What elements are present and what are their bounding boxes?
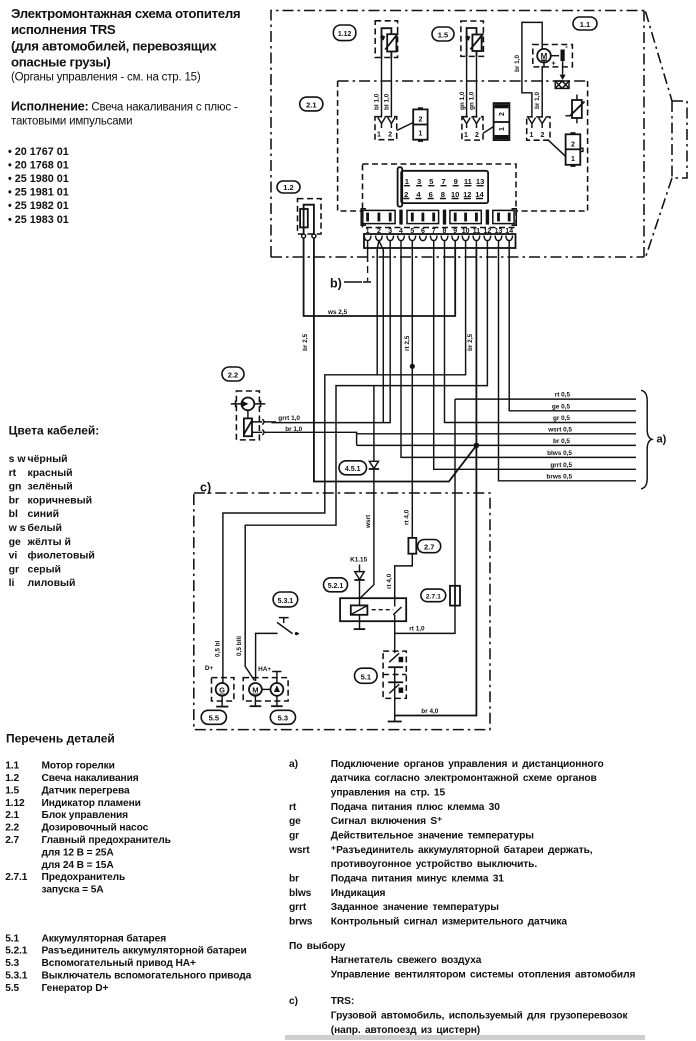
svg-text:1: 1 [405, 177, 410, 186]
svg-text:4.5.1: 4.5.1 [345, 466, 361, 473]
svg-text:Аккумуляторная батарея: Аккумуляторная батарея [42, 932, 167, 944]
svg-text:b): b) [330, 277, 342, 291]
svg-text:5.3.1: 5.3.1 [5, 971, 28, 982]
terminal K1.15 [350, 557, 367, 572]
svg-text:8: 8 [441, 190, 445, 199]
svg-text:5.5: 5.5 [5, 983, 19, 994]
relay coil ground [354, 615, 366, 629]
svg-text:• 25 1983 01: • 25 1983 01 [8, 214, 69, 226]
dosing pump 2.2 label [222, 367, 244, 381]
svg-text:• 20 1768 01: • 20 1768 01 [8, 159, 69, 171]
generator ground [216, 696, 228, 707]
svg-text:M: M [541, 52, 548, 61]
svg-text:1.12: 1.12 [338, 31, 352, 38]
a-bundle labels [546, 392, 572, 481]
svg-text:5.5: 5.5 [209, 714, 219, 723]
svg-text:br: br [9, 494, 20, 506]
bulkhead connector (box with X) on 2.1 edge [555, 81, 569, 88]
svg-text:Контрольный сигнал измерител: Контрольный сигнал измерительного датчик… [331, 917, 568, 928]
temperature sensing resistor in 2.1 [566, 95, 585, 124]
svg-text:2: 2 [418, 117, 422, 124]
svg-text:1.5: 1.5 [438, 31, 448, 40]
wire rt 4,0 fuse to relay contact [395, 554, 413, 599]
svg-text:10: 10 [451, 190, 459, 199]
svg-text:1: 1 [571, 156, 575, 163]
wire ws 2,5 glow plug to pin 9 [304, 238, 456, 316]
svg-text:Генератор D+: Генератор D+ [42, 983, 109, 994]
battery 5.1 label [355, 668, 378, 683]
svg-text:ws 2,5: ws 2,5 [327, 309, 348, 316]
socket fork symbols [364, 236, 512, 252]
wire pin 10 [223, 248, 466, 683]
pump plug contacts [252, 419, 271, 435]
svg-text:красный: красный [28, 467, 73, 479]
overheat sensor 1.5 label [432, 27, 454, 41]
svg-text:По выбору: По выбору [289, 940, 346, 952]
svg-text:brws: brws [289, 917, 313, 928]
aux drive grounds [250, 696, 283, 706]
wire rt 0,5 from fuse column [455, 399, 636, 586]
svg-text:Нагнетатель свежего воздуха: Нагнетатель свежего воздуха [331, 955, 482, 966]
svg-text:1.12: 1.12 [5, 798, 25, 809]
svg-text:1.5: 1.5 [5, 785, 19, 796]
svg-text:gn: gn [9, 481, 22, 493]
wire pin 3 (grrt to pump) [271, 248, 390, 423]
svg-text:rt 4,0: rt 4,0 [404, 509, 411, 525]
svg-text:Грузовой автомобиль, использ: Грузовой автомобиль, используемый для гр… [331, 1010, 629, 1022]
svg-text:1.2: 1.2 [283, 183, 293, 192]
svg-text:1: 1 [418, 131, 422, 138]
connector of 1.5 (2-pin dashed) [462, 117, 483, 140]
svg-text:wsrt: wsrt [288, 845, 310, 856]
flame indicator 1.12 label [333, 25, 355, 41]
svg-text:2: 2 [499, 112, 506, 116]
svg-text:Блок управления: Блок управления [42, 810, 129, 821]
heater unit nose (right protrusion) [646, 12, 688, 257]
svg-text:D+: D+ [205, 665, 214, 672]
svg-text:Главный предохранитель: Главный предохранитель [42, 835, 171, 846]
svg-text:3: 3 [417, 177, 421, 186]
svg-text:Предохранитель: Предохранитель [42, 872, 126, 883]
svg-text:ge: ge [289, 816, 301, 827]
svg-text:Исполнение: Свеча накаливания: Исполнение: Свеча накаливания с плюс - [11, 100, 238, 114]
wire pin 2a [382, 250, 384, 423]
svg-text:• 25 1980 01: • 25 1980 01 [8, 173, 69, 185]
svg-text:rt 0,5: rt 0,5 [555, 392, 571, 399]
svg-text:rt 1,0: rt 1,0 [409, 626, 425, 633]
svg-text:1: 1 [377, 132, 381, 139]
connector X1 outer dashed box [363, 164, 517, 228]
svg-text:+: + [551, 61, 555, 68]
label b) [330, 277, 371, 291]
wire br 0,5 to bundle a [476, 444, 636, 446]
svg-text:2.2: 2.2 [5, 823, 19, 834]
svg-text:w s: w s [8, 522, 26, 534]
svg-text:5.3.1: 5.3.1 [278, 598, 294, 605]
glow plug 1.2 label [277, 181, 300, 193]
wire pin 4 to blws 0,5 [401, 248, 636, 457]
connector of 1.12 (2-pin dashed) [375, 117, 397, 140]
motor supply wire loop [522, 22, 544, 117]
connector pin blades row [361, 209, 516, 225]
burner motor 1.1 (M in dashed box) [533, 42, 573, 68]
svg-text:blws: blws [289, 888, 312, 899]
svg-text:5.3: 5.3 [5, 958, 19, 969]
svg-text:br 1,0: br 1,0 [534, 92, 541, 109]
svg-text:Индикатор пламени: Индикатор пламени [42, 798, 141, 809]
connector of 1.1 (2-pin dashed) [527, 117, 550, 140]
svg-text:исполнения TRS: исполнения TRS [11, 22, 116, 37]
svg-text:14: 14 [475, 190, 484, 199]
svg-text:9: 9 [454, 177, 458, 186]
svg-text:• 25 1981 01: • 25 1981 01 [8, 187, 69, 199]
svg-text:лиловый: лиловый [28, 577, 76, 589]
svg-text:bl 1,0: bl 1,0 [384, 93, 391, 110]
svg-text:brws 0,5: brws 0,5 [546, 473, 572, 480]
glow plug 1.2 [298, 199, 322, 238]
svg-text:1.1: 1.1 [5, 761, 19, 772]
control unit 2.1 label [300, 97, 323, 111]
svg-text:gn 1,0: gn 1,0 [469, 91, 476, 110]
fuse 2.7 label [418, 540, 441, 553]
svg-text:5.3: 5.3 [278, 714, 288, 723]
svg-text:ge 0,5: ge 0,5 [552, 403, 571, 410]
svg-text:датчика согласно электромонт: датчика согласно электромонтажной схеме … [331, 773, 597, 784]
svg-text:br 0,5: br 0,5 [553, 438, 570, 445]
pin numbers row 2 (2 4 6 8 10 12 14) [403, 190, 484, 199]
svg-text:для 12 В = 25А: для 12 В = 25А [42, 847, 115, 858]
svg-text:br 4,0: br 4,0 [421, 708, 438, 715]
svg-text:gr: gr [289, 831, 299, 842]
svg-text:2: 2 [571, 142, 575, 149]
svg-text:серый: серый [28, 563, 62, 575]
svg-text:grrt 0,5: grrt 0,5 [550, 462, 572, 469]
svg-text:Подача питания минус клемма 31: Подача питания минус клемма 31 [331, 874, 505, 885]
svg-text:G: G [219, 686, 225, 695]
label 5.3 [270, 710, 295, 724]
svg-text:gr: gr [9, 563, 20, 575]
overheat sensor 1.5 [461, 21, 484, 56]
svg-text:7: 7 [441, 177, 445, 186]
svg-text:Заданное значение температур: Заданное значение температуры [331, 902, 499, 913]
svg-text:gn 1,0: gn 1,0 [459, 91, 466, 110]
svg-text:Подключение органов управления: Подключение органов управления и дистанц… [331, 759, 604, 770]
svg-text:5.2.1: 5.2.1 [328, 583, 344, 590]
diode 4.5.1 (in wsrt branch) [360, 386, 380, 599]
svg-text:2: 2 [404, 190, 408, 199]
wire pin 2 [376, 250, 378, 375]
svg-text:5.2.1: 5.2.1 [5, 946, 28, 957]
wire pin 13 to brws 0,5 [499, 248, 637, 481]
svg-text:2: 2 [541, 132, 545, 139]
svg-text:(для автомобилей, перевозящих: (для автомобилей, перевозящих [11, 38, 217, 53]
wire pin 7 to grrt 0,5 [434, 248, 636, 469]
dosing pump 2.2 [231, 391, 265, 440]
control unit 2.1 dashed box [338, 81, 588, 211]
svg-text:wsrt 0,5: wsrt 0,5 [547, 426, 572, 433]
svg-text:1: 1 [530, 132, 534, 139]
svg-text:grrt: grrt [289, 902, 307, 913]
plug housing callout of 1.12 [397, 107, 428, 142]
connector terminal numbers 1-14 [366, 228, 514, 235]
heater unit boundary (dash-dot outline) [271, 11, 644, 258]
svg-text:M: M [252, 686, 258, 695]
svg-text:2.7: 2.7 [5, 835, 19, 846]
battery disconnect relay 5.2.1 label [324, 578, 348, 592]
fuse 2.7.1 [450, 586, 460, 606]
svg-text:rt 4,0: rt 4,0 [386, 573, 393, 589]
svg-text:0,5 blli: 0,5 blli [236, 636, 243, 656]
plug housing callout of 1.1 [548, 132, 583, 167]
motor commutation arrow [560, 61, 566, 80]
svg-text:белый: белый [28, 522, 62, 534]
svg-text:2.1: 2.1 [306, 100, 316, 109]
svg-text:bl 1,0: bl 1,0 [374, 93, 381, 110]
svg-text:опасные грузы): опасные грузы) [11, 54, 110, 69]
wire pin 11 (br 2,5 main ground) [395, 248, 476, 716]
svg-text:bl: bl [9, 508, 18, 520]
svg-text:Электромонтажная схема отопите: Электромонтажная схема отопителя [11, 6, 240, 21]
fuse 2.7.1 label [421, 589, 446, 602]
svg-text:фиолетовый: фиолетовый [28, 550, 95, 562]
svg-text:Свеча накаливания: Свеча накаливания [42, 773, 139, 784]
wire wsrt 0,5 [357, 433, 636, 435]
brace for a) [641, 390, 652, 489]
wire 1.12 sensor to connector (bl 1,0) [382, 58, 392, 118]
svg-text:1.2: 1.2 [5, 773, 19, 784]
svg-text:Вспомогательный привод НА+: Вспомогательный привод НА+ [42, 958, 197, 969]
svg-text:2: 2 [388, 132, 392, 139]
svg-text:тактовыми импульсами: тактовыми импульсами [11, 116, 132, 128]
svg-text:запуска = 5А: запуска = 5А [42, 885, 105, 896]
battery ground [388, 682, 402, 721]
svg-text:rt 2,5: rt 2,5 [404, 335, 411, 351]
svg-text:br 1,0: br 1,0 [514, 55, 521, 72]
svg-text:противоугонное устройство вы: противоугонное устройство выключить. [331, 859, 538, 870]
svg-text:2.1: 2.1 [5, 810, 19, 821]
svg-text:gr 0,5: gr 0,5 [553, 415, 570, 422]
svg-text:blws 0,5: blws 0,5 [547, 450, 572, 457]
relay 5.2.1 [340, 598, 406, 621]
svg-text:grrt 1,0: grrt 1,0 [278, 415, 300, 422]
auxiliary drive 5.3 [243, 672, 288, 702]
svg-text:br 2,5: br 2,5 [302, 334, 309, 351]
svg-text:Сигнал включения S⁺: Сигнал включения S⁺ [331, 816, 443, 827]
wire rt 1,0 relay to fuse column [395, 606, 455, 634]
svg-text:Подача питания плюс клемма 30: Подача питания плюс клемма 30 [331, 802, 500, 813]
svg-text:⁺Разъединитель аккумуляторной: ⁺Разъединитель аккумуляторной батареи де… [331, 844, 593, 856]
wire pin 12 [245, 248, 487, 681]
junction rt gauge change [410, 364, 415, 369]
svg-text:6: 6 [429, 190, 433, 199]
svg-text:Датчик перегрева: Датчик перегрева [42, 785, 130, 796]
svg-text:1.1: 1.1 [580, 20, 590, 29]
svg-text:li: li [9, 577, 15, 589]
svg-text:2.7.1: 2.7.1 [5, 872, 28, 883]
svg-text:Управление вентилятором сист: Управление вентилятором системы отоплени… [331, 968, 636, 980]
svg-text:коричневый: коричневый [28, 494, 93, 506]
wire rt 4,0 junction to fuse 2.7 [411, 366, 413, 538]
svg-text:13: 13 [476, 177, 484, 186]
svg-text:2.7.1: 2.7.1 [426, 594, 441, 601]
svg-text:Действительное значение темп: Действительное значение температуры [331, 831, 534, 842]
connector socket strip [364, 234, 516, 248]
label 5.5 [201, 710, 226, 724]
wire 1.5 sensor to connector (gn 1,0) [467, 56, 477, 117]
svg-text:0,5 bl: 0,5 bl [215, 640, 222, 657]
svg-text:Дозировочный насос: Дозировочный насос [42, 823, 149, 834]
svg-text:Выключатель вспомогательного п: Выключатель вспомогательного привода [42, 971, 252, 982]
svg-text:rt: rt [289, 802, 297, 813]
pin numbers row 1 (1 3 5 7 9 11 13) [404, 177, 484, 186]
wire grrt 1,0 pump to pin 3 (drawn with pin3) [271, 421, 276, 423]
svg-text:br: br [289, 874, 299, 885]
svg-text:5: 5 [429, 177, 434, 186]
node b) stub on pin 1 [367, 248, 369, 281]
svg-text:жёлты й: жёлты й [27, 536, 71, 548]
svg-text:br 1,0: br 1,0 [285, 426, 302, 433]
svg-text:а): а) [289, 759, 298, 770]
svg-text:c): c) [289, 996, 298, 1007]
burner motor 1.1 label [573, 17, 597, 30]
svg-text:ge: ge [9, 536, 21, 548]
wire br 1,0 pump to br junction [271, 432, 476, 445]
wire pin 14 to ge 0,5 [509, 248, 636, 411]
svg-text:5.1: 5.1 [361, 672, 371, 681]
svg-text:11: 11 [464, 177, 473, 186]
svg-text:2.7: 2.7 [424, 542, 434, 551]
generator 5.5 [212, 678, 234, 701]
svg-text:vi: vi [9, 550, 18, 562]
switch 5.3.1 [256, 618, 299, 681]
svg-text:• 25 1982 01: • 25 1982 01 [8, 200, 69, 212]
flame indicator 1.12 sensor [375, 21, 398, 58]
svg-text:зелёный: зелёный [28, 481, 73, 493]
svg-text:2.2: 2.2 [228, 370, 238, 379]
svg-text:синий: синий [28, 508, 60, 520]
svg-text:Мотор горелки: Мотор горелки [42, 761, 115, 772]
svg-text:(напр. автопоезд из цистерн: (напр. автопоезд из цистерн) [331, 1025, 480, 1036]
junction br node [474, 443, 480, 449]
svg-text:c): c) [200, 481, 211, 495]
wire br 2,5 glow plug down [314, 238, 477, 482]
wire pin 5 (rt 2,5) [411, 248, 413, 366]
svg-text:• 20 1767 01: • 20 1767 01 [8, 146, 69, 158]
svg-text:Индикация: Индикация [331, 888, 386, 899]
svg-text:управления на стр. 15: управления на стр. 15 [331, 788, 446, 799]
svg-text:чёрный: чёрный [28, 453, 68, 465]
svg-text:HA+: HA+ [258, 666, 271, 673]
svg-text:Цвета кабелей:: Цвета кабелей: [9, 424, 100, 438]
svg-text:rt: rt [9, 467, 17, 479]
svg-text:wsrt: wsrt [365, 514, 372, 529]
svg-text:для 24 В = 15А: для 24 В = 15А [42, 860, 115, 871]
diode 4.5.1 label [339, 461, 367, 475]
connector X1 key panel with pin numbers [398, 167, 489, 207]
battery 5.1 [383, 621, 406, 698]
svg-text:a): a) [657, 434, 667, 446]
svg-text:1: 1 [464, 132, 468, 139]
plug housing callout of 1.5 (rotated labels) [483, 103, 509, 140]
wire pin 8 to gr 0,5 [445, 248, 637, 423]
c-region dash-dot boundary [194, 493, 490, 730]
svg-text:4: 4 [416, 190, 421, 199]
svg-text:br 2,5: br 2,5 [467, 334, 474, 351]
auxiliary drive switch 5.3.1 label [273, 592, 298, 607]
svg-text:12: 12 [463, 190, 471, 199]
diode K1.15 feed [354, 572, 364, 606]
svg-text:Раsъединитель аккумуляторной б: Раsъединитель аккумуляторной батареи [42, 945, 247, 957]
svg-text:K1.15: K1.15 [350, 557, 367, 564]
svg-text:2: 2 [475, 132, 479, 139]
svg-text:s w: s w [9, 453, 27, 465]
fuse 2.7 [408, 538, 416, 554]
svg-text:TRS:: TRS: [331, 996, 354, 1007]
svg-text:Перечень деталей: Перечень деталей [6, 732, 115, 746]
svg-text:1: 1 [499, 127, 506, 131]
svg-text:(Органы управления - см. на ст: (Органы управления - см. на стр. 15) [11, 72, 201, 84]
svg-text:5.1: 5.1 [5, 933, 19, 944]
svg-text:-: - [565, 42, 568, 51]
